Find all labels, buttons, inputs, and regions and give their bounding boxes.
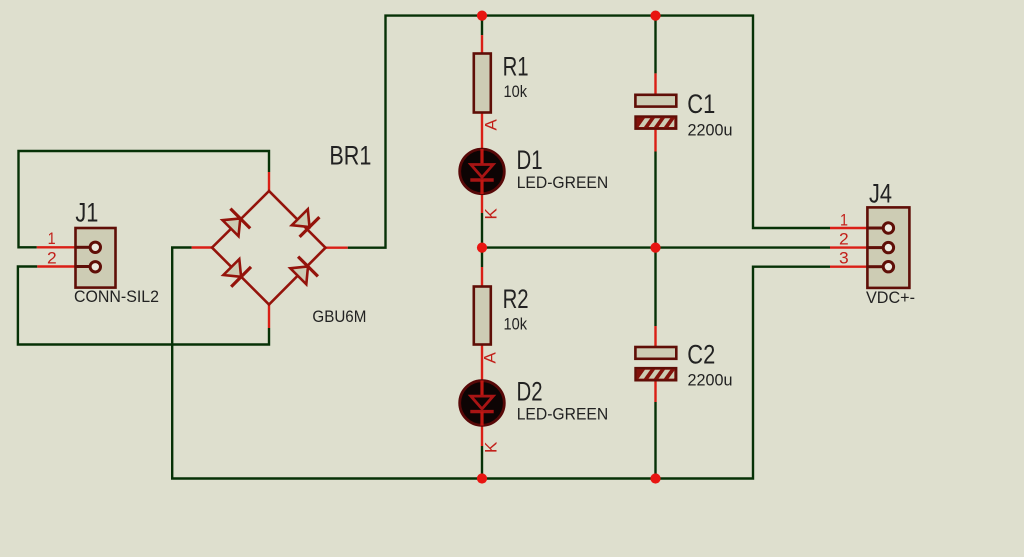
svg-text:2: 2 xyxy=(839,230,849,249)
pin J4 pin3 xyxy=(830,266,868,268)
svg-text:10k: 10k xyxy=(504,82,528,101)
svg-text:GBU6M: GBU6M xyxy=(312,307,366,326)
svg-text:3: 3 xyxy=(839,249,849,268)
svg-text:BR1: BR1 xyxy=(329,140,371,170)
capacitor C2 xyxy=(635,347,682,385)
capacitor C1 xyxy=(635,95,682,133)
junction top at C1 column xyxy=(650,11,660,21)
wire top node to C1 xyxy=(654,16,656,74)
svg-text:C2: C2 xyxy=(687,340,715,370)
svg-text:J4: J4 xyxy=(869,179,892,209)
svg-text:A: A xyxy=(481,352,500,364)
junction middle at C1 column xyxy=(650,243,660,253)
wire middle rail to C2 top xyxy=(654,248,656,326)
svg-text:R1: R1 xyxy=(503,51,529,81)
pin R2 top xyxy=(481,267,483,287)
connector J4 xyxy=(867,207,909,288)
svg-text:10k: 10k xyxy=(504,315,528,334)
svg-text:D2: D2 xyxy=(517,376,543,406)
wire BR1 right vertex to top rail to J4 pin1 xyxy=(348,16,830,248)
bridge diode 1 of BR1 (left-top arm) xyxy=(223,209,251,237)
svg-text:A: A xyxy=(482,119,501,131)
wire D1 cathode to middle rail xyxy=(481,213,483,248)
bridge rectifier BR1 xyxy=(212,191,326,305)
svg-text:VDC+-: VDC+- xyxy=(866,288,915,307)
pin C1 top xyxy=(654,73,656,96)
wire BR1 left vertex to bottom rail to J4 pin3 xyxy=(172,248,830,479)
pin C2 top xyxy=(654,326,656,349)
pin R1 bottom to D1 anode xyxy=(481,113,483,150)
svg-text:2200u: 2200u xyxy=(688,120,733,139)
pin BR1 right xyxy=(326,246,348,248)
pin R2 bottom to D2 anode xyxy=(481,344,483,381)
wire C1 bottom to middle rail xyxy=(654,152,656,248)
pin R1 top xyxy=(481,35,483,54)
wire C2 bottom to bottom rail xyxy=(654,402,656,479)
svg-text:C1: C1 xyxy=(687,89,715,119)
diamond body of BR1 xyxy=(212,191,326,305)
connector J1 xyxy=(76,228,116,288)
pin D2 cathode xyxy=(481,425,483,446)
svg-text:K: K xyxy=(482,441,501,453)
svg-text:2: 2 xyxy=(47,248,57,267)
svg-text:J1: J1 xyxy=(75,197,98,227)
junction middle at R2 column xyxy=(477,243,487,253)
svg-text:D1: D1 xyxy=(517,145,543,175)
svg-text:LED-GREEN: LED-GREEN xyxy=(517,173,609,192)
svg-text:CONN-SIL2: CONN-SIL2 xyxy=(74,287,159,306)
pin J4 pin2 xyxy=(830,246,868,248)
svg-text:LED-GREEN: LED-GREEN xyxy=(517,405,609,424)
bridge diode 2 of BR1 (top-right arm) xyxy=(292,209,320,237)
LED D1 xyxy=(460,149,505,194)
pin BR1 top xyxy=(268,172,270,191)
pin BR1 bottom xyxy=(268,305,270,329)
bridge diode 4 of BR1 (bottom-right arm) xyxy=(290,257,318,285)
junction bottom at C2 column xyxy=(650,473,660,483)
svg-text:1: 1 xyxy=(48,229,56,248)
LED D2 xyxy=(460,381,505,426)
wire middle rail node to J4 pin2 xyxy=(482,246,830,248)
junction bottom at D2 column xyxy=(477,473,487,483)
pin C1 bottom xyxy=(654,129,656,152)
svg-text:1: 1 xyxy=(840,211,848,230)
bridge diode 3 of BR1 (left-bottom arm) xyxy=(223,259,251,287)
wire J1 pin2 to BR1 bottom via bottom-left loop xyxy=(18,267,269,345)
wire D2 cathode to bottom rail xyxy=(481,446,483,479)
wire top node to R1 xyxy=(481,16,483,35)
pin BR1 left xyxy=(192,246,212,248)
wire middle rail to R2 xyxy=(481,248,483,267)
pin J1 pin2 xyxy=(37,265,76,267)
resistor R1 xyxy=(474,54,491,113)
wire J1 pin1 to BR1 top via top-left loop xyxy=(19,151,270,247)
pin J4 pin1 xyxy=(830,227,868,229)
pin D1 cathode xyxy=(481,194,483,214)
svg-text:K: K xyxy=(482,208,501,220)
pin C2 bottom xyxy=(654,380,656,403)
pin J1 pin1 xyxy=(37,246,77,248)
svg-text:R2: R2 xyxy=(503,284,529,314)
resistor R2 xyxy=(474,287,491,345)
svg-text:2200u: 2200u xyxy=(688,371,733,390)
junction top at R1 column xyxy=(477,11,487,21)
